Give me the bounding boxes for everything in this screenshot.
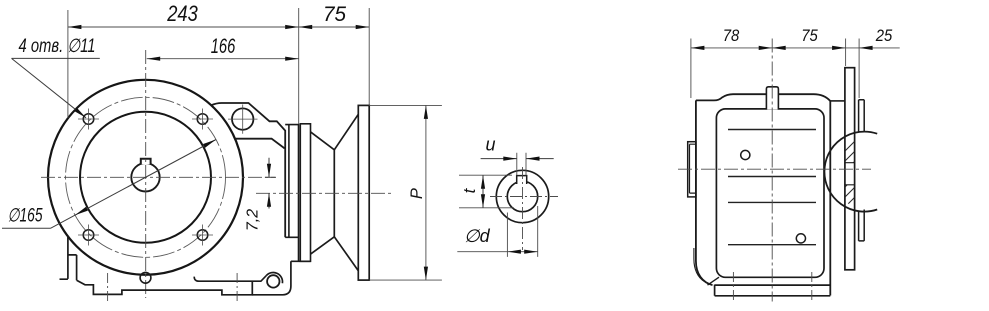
- t arrow down: [481, 194, 485, 208]
- motor circle arc: [824, 132, 877, 212]
- bottom-right lug hole: [267, 275, 279, 287]
- cone bottom: [310, 237, 358, 271]
- leader arrow: [74, 108, 86, 118]
- arrow 165 lower: [75, 207, 88, 215]
- u dim line: [481, 158, 554, 160]
- arrow 243 right: [285, 25, 299, 29]
- bolt circle (dash-dot): [66, 97, 226, 257]
- bottom-right lug outer arc: [266, 273, 282, 284]
- vertical centerline: [145, 50, 147, 298]
- tick at front axis: [265, 176, 276, 178]
- leader shelf 165: [2, 227, 51, 229]
- ext bottom: [369, 279, 442, 281]
- spigot stub bottom: [859, 210, 865, 241]
- arrow 7,2 up: [267, 193, 271, 207]
- foot centerline right: [811, 272, 813, 302]
- t dim line: [482, 175, 484, 208]
- u arrow left: [503, 157, 517, 161]
- svg-text:P: P: [408, 188, 426, 199]
- arrow 75 left: [299, 25, 313, 29]
- panel line 3: [728, 201, 816, 203]
- face extension line: [298, 8, 300, 124]
- P dim line: [425, 105, 427, 280]
- u arrow right: [526, 157, 540, 161]
- side horizontal centerline: [678, 168, 871, 170]
- foot pad centerline right: [236, 273, 238, 303]
- hatch lower band: [826, 166, 891, 231]
- base chamfer: [708, 277, 720, 285]
- shaft circle: [131, 163, 159, 191]
- bolt hole top-right: [197, 114, 208, 125]
- right view dim line: [691, 47, 900, 49]
- flange outer circle: [48, 80, 243, 275]
- arrow 78 left: [691, 46, 705, 50]
- top lug bottom edge: [235, 139, 284, 149]
- hatch upper band: [826, 120, 891, 185]
- bell centerline: [256, 192, 392, 194]
- ext line left (243): [67, 10, 69, 118]
- keyway slot: [517, 176, 527, 185]
- svg-text:u: u: [485, 135, 495, 155]
- flange inner circle: [80, 112, 211, 243]
- dim 243 line: [68, 26, 299, 28]
- svg-text:25: 25: [875, 26, 893, 45]
- svg-text:243: 243: [166, 1, 198, 26]
- keyway: [141, 159, 151, 165]
- arrow 243 left: [68, 25, 82, 29]
- spigot stub top: [859, 100, 865, 132]
- side view vertical centerline: [771, 39, 773, 302]
- housing right wall second line: [285, 125, 299, 238]
- t arrow up: [481, 175, 485, 189]
- panel line 1: [728, 129, 816, 131]
- flange plate side: [845, 68, 855, 270]
- outer circle: [496, 170, 548, 222]
- dim 75 line: [299, 26, 370, 28]
- arrow 166 right: [285, 57, 299, 61]
- arrow 75b left: [772, 46, 786, 50]
- arrow shafts: [268, 158, 270, 209]
- svg-text:78: 78: [723, 26, 740, 45]
- arrow P top: [424, 105, 428, 119]
- left protrusion: [688, 142, 696, 197]
- panel line 4: [728, 244, 816, 246]
- bolt hole bottom-left: [83, 230, 94, 241]
- base bottom outline: [77, 280, 253, 295]
- base slab: [715, 285, 831, 296]
- lug big hole: [232, 108, 253, 129]
- svg-text:∅165: ∅165: [8, 206, 43, 227]
- svg-text:4 отв. ∅11: 4 отв. ∅11: [19, 36, 96, 57]
- d ext lines: [507, 206, 537, 257]
- svg-text:∅d: ∅d: [464, 226, 491, 246]
- u ext lines: [517, 153, 526, 176]
- drain plug bottom: [140, 272, 151, 283]
- detail horizontal centerline: [490, 196, 558, 198]
- inner cover panel: [716, 109, 824, 277]
- d arrow left: [507, 250, 521, 254]
- hatch band boundaries: [845, 163, 855, 185]
- svg-text:166: 166: [211, 35, 236, 58]
- ext top: [369, 104, 442, 106]
- ext 75 right: [845, 39, 847, 67]
- svg-text:75: 75: [801, 26, 818, 45]
- base inner recess line: [194, 276, 266, 282]
- top plug: [766, 87, 778, 110]
- svg-text:75: 75: [323, 3, 346, 26]
- boss upper: [741, 150, 750, 159]
- detail vertical centerline: [522, 167, 524, 250]
- adapter plate: [300, 124, 310, 261]
- bottom edge under lug and right corner: [252, 261, 310, 295]
- housing left wall inner line: [694, 248, 705, 282]
- t ext lines: [459, 175, 514, 208]
- bolt hole top-left: [83, 114, 94, 125]
- arrow 75 right: [356, 25, 370, 29]
- d dim line: [457, 251, 537, 253]
- diagonal dimension line: [51, 140, 217, 229]
- housing left wall: [696, 100, 713, 285]
- housing right wall: [829, 101, 831, 296]
- d arrow right: [524, 250, 538, 254]
- right shoulder: [830, 100, 845, 102]
- motor flange plate: [358, 105, 369, 280]
- ext 25 right: [858, 39, 860, 99]
- bolt hole bottom-right: [197, 230, 208, 241]
- boss lower: [796, 234, 805, 243]
- ext line right flange face: [368, 8, 370, 105]
- foot pad centerline left: [107, 273, 109, 303]
- foot centerline left: [732, 272, 734, 302]
- arrow 7,2 down: [267, 164, 271, 178]
- cone neck: [333, 150, 335, 237]
- panel line 2: [728, 176, 816, 178]
- arrow 166 left: [147, 57, 161, 61]
- horizontal centerline: [41, 176, 276, 178]
- base left edge: [60, 236, 77, 280]
- arrow 165 upper: [203, 140, 216, 148]
- shaft circle: [507, 181, 537, 211]
- leader diagonal: [12, 58, 87, 117]
- top lug outline: [211, 103, 285, 237]
- arrow 78 right: [759, 46, 773, 50]
- arrow 25 left outside: [859, 46, 873, 50]
- cone top: [310, 114, 358, 150]
- ext 78 left: [690, 39, 692, 99]
- dim 166 line: [147, 58, 299, 60]
- arrow P bottom: [424, 267, 428, 281]
- leader shelf: [12, 57, 100, 59]
- arrow 75b right: [832, 46, 846, 50]
- svg-text:7,2: 7,2: [245, 209, 262, 231]
- housing outline: [696, 94, 830, 101]
